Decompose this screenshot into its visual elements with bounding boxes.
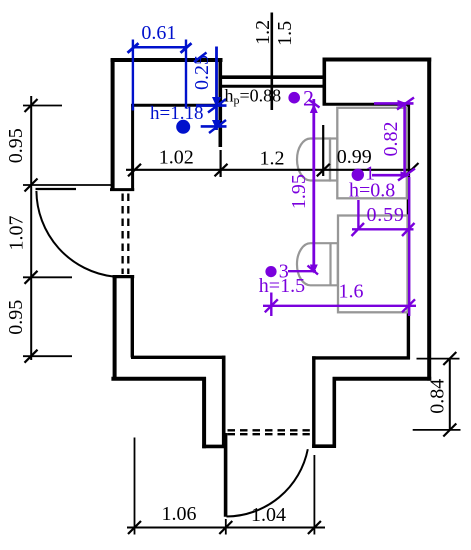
wall right inner	[407, 103, 410, 360]
purple dim 0.82 overlay line	[374, 102, 414, 105]
purple 1.6 left slash	[265, 299, 278, 312]
toilet 1 bowl	[297, 139, 330, 181]
wall window left jamb	[219, 59, 223, 148]
wall top-right	[323, 58, 432, 62]
dim 0.84 tick top	[443, 352, 456, 365]
purple dot 1	[352, 169, 364, 181]
wall left outer	[111, 59, 115, 192]
blue dim 0.61 line	[133, 46, 186, 49]
purple leader from 1 to wall	[372, 174, 408, 177]
blue slash lower	[209, 120, 226, 133]
bottom door opening dashed lines	[228, 429, 310, 431]
blue slash at niche line	[208, 99, 226, 113]
wall inner bottom-right vertical	[312, 356, 315, 448]
purple dot 3	[265, 266, 276, 277]
blue tick 0.61 left	[128, 43, 139, 53]
wall cap right of bottom door	[312, 444, 336, 448]
purple 0.82 bottom slash	[398, 169, 415, 181]
svg-text:0.59: 0.59	[367, 204, 405, 226]
svg-text:1.06: 1.06	[162, 503, 197, 525]
left door opening dashed lines	[121, 194, 123, 275]
wall outer bottom-right vertical	[332, 377, 336, 448]
svg-text:0.95: 0.95	[5, 300, 27, 335]
svg-text:0.82: 0.82	[380, 122, 402, 157]
wall left below door inner	[131, 276, 134, 357]
bottom dimension line	[127, 527, 325, 529]
wall outer bottom-left horizontal	[111, 377, 206, 381]
blue vertical 0.25 line	[215, 47, 218, 131]
dim 0.84 line	[449, 359, 451, 430]
purple leader from 3	[288, 270, 316, 272]
wall cap left of bottom door	[202, 445, 226, 449]
purple 1.6 ext right	[408, 177, 410, 316]
svg-text:h=1.18: h=1.18	[150, 103, 203, 124]
gray cabinet rect lower	[338, 216, 408, 313]
window inner line	[219, 85, 325, 88]
wall outer bottom-right horizontal	[333, 377, 432, 381]
purple 0.82 top arrow	[398, 100, 408, 107]
purple dim 1.95 line	[312, 99, 315, 273]
wall left lower jamb vertical	[222, 356, 226, 447]
chain ext second	[23, 184, 113, 186]
purple 1.95 bottom slash	[308, 266, 319, 275]
wall bay bottom inner	[323, 103, 410, 106]
chain ext top	[23, 105, 62, 107]
purple dim 0.82 vertical	[403, 103, 406, 174]
chain tick 2	[25, 179, 38, 192]
svg-text:0.25: 0.25	[191, 55, 213, 90]
purple 1.6 right slash	[402, 299, 415, 312]
blue ext left	[132, 40, 134, 111]
tick 1.02|1.2	[215, 164, 228, 177]
purple 1.95 top arrow	[310, 104, 318, 113]
wall bay left	[322, 59, 326, 106]
chain ext bottom	[23, 355, 72, 357]
bottom ext left	[134, 438, 136, 535]
svg-text:1.95: 1.95	[288, 174, 310, 209]
svg-text:h=0.8: h=0.8	[349, 180, 395, 202]
purple arrow right at wall	[401, 171, 411, 179]
svg-text:0.95: 0.95	[5, 128, 27, 163]
purple 0.82 top slash	[397, 98, 414, 110]
blue slash top 0.25	[194, 53, 207, 63]
wall left below door outer	[113, 276, 117, 379]
purple leader down from dot1	[357, 200, 359, 230]
wall cap left door bottom jamb	[113, 275, 135, 278]
tick 0.99 right	[406, 163, 419, 176]
wall inner bottom-right horizontal	[312, 356, 410, 359]
wall outer bottom-left vertical	[202, 377, 206, 448]
svg-text:1.07: 1.07	[6, 216, 28, 251]
tick 1.02 left	[128, 164, 141, 177]
purple 1.6 ext left	[270, 293, 272, 317]
purple dim 0.59 line	[352, 228, 414, 230]
bottom ext mid	[225, 519, 227, 535]
bottom ext right	[313, 455, 315, 535]
purple 0.59 right slash	[402, 223, 415, 236]
blue arrow down lower	[212, 120, 221, 130]
blue ext right	[185, 40, 187, 109]
gray cabinet rect upper	[337, 108, 407, 199]
blue tail lower	[201, 125, 227, 128]
bottom tick right	[308, 521, 321, 534]
blue measurement dot	[176, 120, 190, 134]
blue arrow down at niche line	[212, 97, 221, 107]
purple dim 1.6 line	[263, 305, 416, 307]
left dimension chain line	[30, 96, 32, 360]
svg-text:0.61: 0.61	[141, 22, 176, 44]
svg-text:1.6: 1.6	[339, 280, 364, 302]
svg-text:h=1.5: h=1.5	[259, 275, 305, 297]
toilet 2 cistern	[329, 243, 331, 285]
wall right outer	[427, 58, 431, 381]
dim 0.84 tick bottom	[443, 424, 456, 437]
blue tick 0.61 right	[181, 43, 192, 53]
window outer line	[219, 75, 325, 79]
purple 0.59 left slash	[352, 223, 365, 236]
svg-text:2: 2	[303, 85, 314, 110]
chain tick 3	[25, 271, 38, 284]
svg-text:1.02: 1.02	[159, 147, 194, 169]
chain tick 1	[25, 99, 38, 112]
left door swing arc	[36, 191, 113, 277]
bottom tick mid	[219, 521, 232, 534]
extension line 1.2|0.99	[322, 125, 324, 176]
window centerline top	[270, 13, 273, 111]
wall niche inner line	[131, 104, 221, 107]
wall top-left	[111, 58, 223, 62]
wall inner bottom-left horizontal	[131, 356, 225, 359]
tick 1.2|0.99	[317, 164, 330, 177]
chain tick 4	[25, 350, 38, 363]
svg-text:1.5: 1.5	[274, 21, 296, 46]
svg-text:1.04: 1.04	[251, 504, 286, 526]
bottom door swing arc	[227, 449, 308, 516]
svg-text:1.2: 1.2	[260, 148, 285, 170]
dim line interior horizontal	[126, 169, 413, 171]
purple 1.95 top slash	[309, 100, 320, 108]
bottom door leaf	[224, 433, 228, 517]
wall left inner	[131, 104, 134, 191]
toilet 1 cistern	[330, 139, 337, 181]
svg-text:1.2: 1.2	[252, 20, 274, 45]
purple dot 2	[288, 92, 300, 104]
left door leaf	[36, 188, 77, 190]
toilet 2 bowl	[297, 243, 338, 285]
wall cap left door top jamb	[110, 188, 134, 191]
svg-text:0.84: 0.84	[427, 379, 449, 414]
svg-text:hp=0.88: hp=0.88	[225, 86, 282, 108]
dim 0.84 ext top	[417, 358, 460, 360]
dim 0.84 ext bottom	[413, 429, 461, 431]
extension line 1.02|1.2	[220, 150, 222, 177]
bottom tick left	[128, 521, 141, 534]
purple 1.95 bottom arrow	[310, 265, 318, 274]
chain ext third	[23, 276, 72, 278]
blue tail at niche line	[196, 104, 227, 107]
